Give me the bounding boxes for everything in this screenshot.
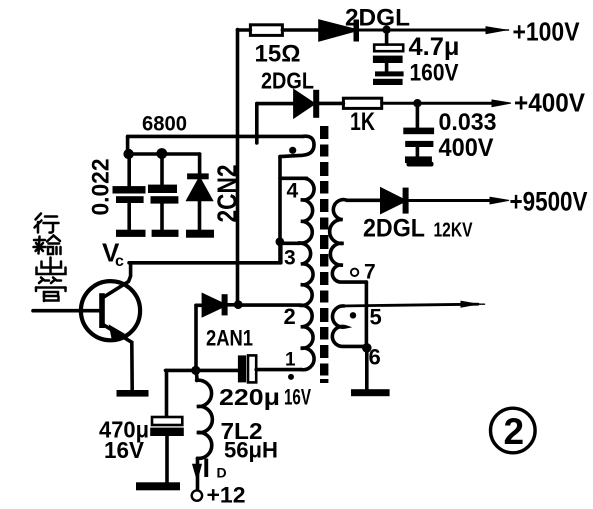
terminal 5 polarity dot xyxy=(350,312,356,318)
wire xyxy=(282,28,320,32)
wire to +100V arrow xyxy=(359,29,489,32)
svg-text:+12: +12 xyxy=(207,483,246,508)
ground xyxy=(405,156,432,163)
svg-text:160V: 160V xyxy=(410,60,459,87)
svg-text:400V: 400V xyxy=(439,134,494,162)
svg-text:4.7μ: 4.7μ xyxy=(409,33,460,61)
svg-text:4: 4 xyxy=(287,180,299,203)
wire stub to snubber xyxy=(126,136,130,154)
ground terminal 6 xyxy=(351,389,390,396)
capacitor C6 220u 16V electrolytic xyxy=(196,369,238,373)
svg-text:+400V: +400V xyxy=(514,88,586,118)
transformer secondary HV winding (to 9500V) xyxy=(330,200,367,282)
wire winding left edge xyxy=(278,157,282,263)
wire to +9500V arrow xyxy=(409,199,496,202)
wire base lead xyxy=(33,309,99,313)
capacitor C2 0.033 400V xyxy=(416,104,420,128)
winding section 2-1 xyxy=(300,305,314,370)
capacitor C5 470u 16V electrolytic xyxy=(152,417,182,425)
transformer core xyxy=(320,126,328,383)
diode D4 2CN2 (clamp) xyxy=(198,154,202,174)
node 6 junction xyxy=(362,343,372,353)
terminal +12 circle xyxy=(192,490,202,500)
ground emitter xyxy=(117,390,149,397)
wire emitter xyxy=(103,325,132,391)
diode D3 2DGL 12KV xyxy=(382,190,404,212)
svg-text:12KV: 12KV xyxy=(434,220,474,242)
wire node 2 tap xyxy=(238,303,300,307)
diode D2 2DGL (+400V row) xyxy=(295,92,313,116)
ground xyxy=(186,230,214,238)
svg-text:2DGL: 2DGL xyxy=(261,68,314,94)
svg-text:2: 2 xyxy=(284,304,296,329)
svg-text:220μ: 220μ xyxy=(219,384,280,410)
ground xyxy=(116,230,146,237)
node D junction xyxy=(156,148,167,159)
svg-text:15Ω: 15Ω xyxy=(255,41,301,68)
svg-text:D: D xyxy=(217,465,227,481)
diode D5 2AN1 xyxy=(196,303,203,307)
svg-text:I: I xyxy=(203,453,211,483)
current arrow ID xyxy=(193,465,201,480)
svg-text:1: 1 xyxy=(285,350,296,371)
resistor R2 1K xyxy=(343,98,381,108)
stray ink mark xyxy=(407,162,434,167)
char shu xyxy=(34,239,45,242)
node F junction xyxy=(191,366,200,375)
wire 6800 line xyxy=(128,135,304,139)
svg-text:2DGL: 2DGL xyxy=(363,215,425,243)
svg-text:0.022: 0.022 xyxy=(88,159,115,216)
svg-text:16V: 16V xyxy=(104,437,145,463)
node B junction xyxy=(413,99,421,107)
char guan xyxy=(39,280,43,283)
svg-text:2AN1: 2AN1 xyxy=(206,326,253,351)
terminal 7 mark xyxy=(351,269,358,276)
wire 2AN1 anode down xyxy=(194,305,198,370)
wire xyxy=(319,102,343,106)
char chu xyxy=(49,258,52,274)
node A junction xyxy=(382,26,390,34)
svg-text:3: 3 xyxy=(284,247,296,270)
transistor Q1 (line output tube) xyxy=(81,281,140,340)
wire to 470u xyxy=(166,369,196,373)
svg-text:2DGL: 2DGL xyxy=(345,5,410,32)
resistor R1 15 ohm xyxy=(250,25,282,36)
svg-text:2: 2 xyxy=(504,411,525,452)
transformer T1 primary top curl xyxy=(280,136,314,156)
wire +100V row xyxy=(238,28,251,32)
label Chinese: hang shu chu guan (line output tube) xyxy=(34,214,66,302)
wire main vertical bus from +100V row down to 2AN1 node xyxy=(236,30,240,305)
node 3 junction xyxy=(276,237,285,246)
svg-text:56μH: 56μH xyxy=(224,438,278,463)
figure number 2 circled xyxy=(491,408,536,453)
capacitor C4 (middle) xyxy=(160,154,164,185)
terminal 1 polarity dot xyxy=(288,374,294,380)
ground xyxy=(375,71,404,76)
svg-text:6: 6 xyxy=(369,345,381,370)
svg-text:5: 5 xyxy=(370,305,382,330)
ground xyxy=(136,482,180,490)
node E junction (2AN1 cathode to bus) xyxy=(234,300,243,309)
svg-text:6800: 6800 xyxy=(142,113,187,136)
winding section 4-3 xyxy=(299,179,314,244)
winding section 3-2 xyxy=(299,243,313,305)
wire to ground xyxy=(365,348,369,390)
inductor L1 7L2 56uH xyxy=(196,371,197,381)
wire deflection output with arrow xyxy=(340,304,478,306)
svg-text:2CN2: 2CN2 xyxy=(212,165,243,223)
ground xyxy=(152,230,179,237)
wire +9500V row xyxy=(347,199,382,203)
wire collector xyxy=(103,263,131,298)
svg-text:16V: 16V xyxy=(284,385,311,410)
svg-text:7: 7 xyxy=(364,261,376,284)
svg-text:+9500V: +9500V xyxy=(510,187,588,217)
diode D1 2DGL (top) xyxy=(320,22,354,40)
svg-text:0.033: 0.033 xyxy=(439,109,497,136)
svg-text:1K: 1K xyxy=(350,108,375,136)
char xing xyxy=(36,214,42,220)
wire +400V row stub xyxy=(255,104,259,143)
wire to +400V arrow xyxy=(382,102,495,105)
wire tap stub 4 xyxy=(280,177,307,181)
wire Vc collector line xyxy=(129,261,281,265)
capacitor C3 0.022 (left) xyxy=(127,154,131,186)
capacitor C1 4.7u 160V xyxy=(385,31,389,45)
svg-text:c: c xyxy=(115,253,124,270)
svg-text:+100V: +100V xyxy=(513,17,581,47)
transformer secondary winding 5-6 xyxy=(332,306,366,346)
node C junction xyxy=(123,149,133,159)
